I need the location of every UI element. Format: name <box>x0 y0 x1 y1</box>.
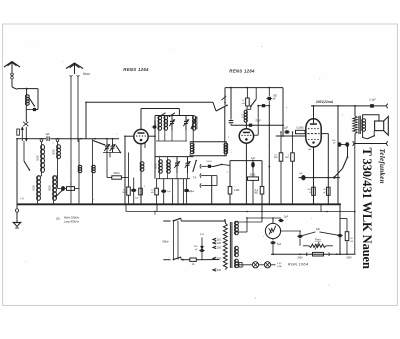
heater junctions <box>154 211 355 213</box>
wire plate V2 right <box>282 88 284 136</box>
label RENS 1264 first <box>123 67 149 72</box>
coil L11 core <box>192 116 196 131</box>
wire screen rail <box>327 134 329 205</box>
wire rect to line <box>272 245 274 254</box>
capacitor C13b 70pF <box>248 119 262 126</box>
label 100V <box>316 100 334 104</box>
label Telefunken <box>378 149 386 184</box>
svg-text:MΩ: MΩ <box>285 157 289 159</box>
wire det row <box>230 160 262 162</box>
coil L10 <box>164 116 169 131</box>
wire C12 down <box>268 101 270 106</box>
coil L5 row2 <box>48 176 57 205</box>
cathode rail V2 <box>245 143 247 204</box>
svg-text:4,5V: 4,5V <box>277 263 282 265</box>
trimmer C6 gang <box>110 139 116 153</box>
resistor R12 500 <box>307 187 315 195</box>
wire speaker rail <box>354 105 356 116</box>
fuse F1 <box>190 258 219 266</box>
svg-text:L.A: L.A <box>200 232 204 236</box>
coil hook b <box>56 139 59 142</box>
capacitor C12 500pF top <box>266 88 277 101</box>
jack J1 <box>387 104 388 109</box>
wire row1 legs <box>159 130 186 141</box>
transformer IF1 bottom <box>190 154 227 156</box>
svg-text:0,3: 0,3 <box>242 114 245 118</box>
wire leg a <box>172 179 174 205</box>
transformer T2 secondary HT <box>235 221 239 235</box>
transformer T2 primary <box>223 223 227 270</box>
svg-text:T 330/431 WLK Nauen: T 330/431 WLK Nauen <box>360 148 374 269</box>
capacitor C24 5uF <box>270 241 282 246</box>
heater lead V1 <box>144 143 146 149</box>
capacitor C14 grid <box>229 121 234 126</box>
wire lead1 to primary <box>181 218 225 221</box>
wire speaker bottom <box>363 131 368 139</box>
ground symbol <box>13 223 22 229</box>
wire HT down <box>235 218 247 232</box>
svg-text:240V: 240V <box>297 257 303 259</box>
wire row2 bottom <box>156 178 190 180</box>
switch S6 <box>116 146 121 154</box>
coil L3 3000 <box>52 142 60 159</box>
wire grid side <box>148 116 155 179</box>
label Kurz <box>83 72 90 76</box>
wire lamp link <box>259 264 265 266</box>
mains lead 2 <box>163 259 170 261</box>
svg-text:1μF: 1μF <box>284 126 289 129</box>
variometer arrow down <box>25 127 27 141</box>
transformer IF1 left coil <box>190 130 194 154</box>
coil L8 cathode <box>140 162 144 171</box>
capacitor C27 block <box>306 252 329 256</box>
coil L2 1000 <box>36 142 44 173</box>
svg-text:Telefunken: Telefunken <box>378 149 386 184</box>
capacitor C22 mains antenna <box>194 238 205 260</box>
svg-text:kΩ: kΩ <box>242 103 245 105</box>
svg-text:I·A: I·A <box>20 197 24 201</box>
label 1uF small <box>308 149 312 151</box>
trimmer C10 <box>174 157 180 179</box>
antenna A1 symbol <box>4 62 20 73</box>
grid cap wire V2 <box>230 88 232 120</box>
wire fern taps <box>300 231 334 249</box>
jack TA top <box>200 164 207 168</box>
B+ rail right <box>337 105 339 204</box>
svg-text:100V,22mA: 100V,22mA <box>316 100 334 104</box>
svg-text:2 MΩ: 2 MΩ <box>234 190 240 192</box>
svg-text:MΩ: MΩ <box>123 192 127 194</box>
capacitor C2 1uF series <box>45 133 50 141</box>
ground terminal <box>15 204 18 222</box>
wire IF1 drop <box>226 142 228 156</box>
wire grid line <box>17 138 119 140</box>
label T330/431 WLK Nauen <box>360 148 374 269</box>
svg-text:▸,5μF: ▸,5μF <box>189 190 195 193</box>
wire speaker top <box>363 115 379 121</box>
heater drop V1 <box>154 212 156 216</box>
trimmer C11 <box>185 157 191 179</box>
resistor R9 0.2M <box>296 126 306 133</box>
tap 150 <box>213 246 222 249</box>
wire lamp out <box>271 264 276 266</box>
wire antenna node row <box>17 88 38 90</box>
capacitor C13 bypass <box>261 104 267 107</box>
tube V1 RENS1264 <box>134 129 148 143</box>
capacitor C28 TA <box>207 165 213 168</box>
transformer T2 secondary heater <box>235 246 239 257</box>
coil hook a <box>40 139 43 142</box>
svg-text:5μF: 5μF <box>277 243 282 246</box>
B+ rail bottom <box>339 203 341 254</box>
svg-text:3000: 3000 <box>169 163 172 169</box>
wire bottom row <box>271 253 356 255</box>
capacitor C17 5uF <box>299 173 306 180</box>
coil L12 <box>155 157 163 179</box>
choke field coil <box>353 116 357 134</box>
label lamp rating <box>277 263 282 268</box>
label 240V <box>297 257 352 259</box>
switch S16 contacts <box>159 113 175 117</box>
coil L15 <box>242 106 248 122</box>
transformer T2 secondary lamp <box>235 259 239 267</box>
wire AF grid row <box>276 135 306 137</box>
resistor R7 30k <box>248 174 259 205</box>
resistor R5 1k <box>241 88 249 106</box>
label I-A <box>20 197 24 201</box>
label L.A. <box>200 232 204 236</box>
svg-text:4μF: 4μF <box>316 228 321 231</box>
wire grid V3 <box>305 134 307 136</box>
heater stub V1 <box>156 204 158 211</box>
grid leak rail <box>124 136 126 204</box>
svg-text:220: 220 <box>217 258 222 261</box>
switch S1 antenna <box>29 98 35 107</box>
svg-text:kΩ: kΩ <box>350 241 353 243</box>
svg-text:3000: 3000 <box>48 185 51 191</box>
lamp P2 <box>264 262 270 268</box>
svg-text:MΩ: MΩ <box>254 193 258 195</box>
heater stub V3 <box>320 204 322 211</box>
wire right branch <box>37 89 39 110</box>
capacitor C30 <box>161 179 171 205</box>
label RENS 1264 second <box>229 68 255 73</box>
wire rect top <box>272 217 274 223</box>
wire choke down <box>354 134 356 144</box>
tap 125 <box>213 242 222 245</box>
wire plate RES964 <box>313 106 315 119</box>
wire drop to coil <box>26 89 28 95</box>
resistor R6 <box>228 187 239 205</box>
resistor R11 1M <box>285 131 294 204</box>
wire HT to heater line <box>235 212 262 223</box>
capacitor C1 antenna series <box>26 108 38 111</box>
svg-text:5μF: 5μF <box>299 173 303 175</box>
wire row2 top <box>155 156 194 158</box>
capacitor C29 blob <box>152 126 157 129</box>
wire grid tube1 <box>125 135 134 137</box>
svg-text:MΩ: MΩ <box>274 157 278 159</box>
svg-text:150: 150 <box>217 247 222 250</box>
terminal block <box>17 129 20 135</box>
coil L4 row2 <box>32 176 41 205</box>
feeder hook right <box>77 75 80 142</box>
svg-text:3000: 3000 <box>52 149 55 155</box>
tube V3 output <box>306 119 321 147</box>
wire top bus <box>86 102 216 111</box>
transformer T1 core <box>359 116 360 134</box>
svg-text:1A: 1A <box>192 263 195 266</box>
wire heater corner <box>340 219 347 232</box>
svg-text:Mittel 200kHz: Mittel 200kHz <box>64 217 80 220</box>
svg-text:125: 125 <box>217 242 222 245</box>
tap 220 <box>213 257 222 260</box>
svg-text:RGN 1064: RGN 1064 <box>288 261 309 266</box>
switch S9 <box>247 88 256 110</box>
resistor R1 50k <box>107 153 129 180</box>
wire bypass row <box>257 105 270 107</box>
resistor R13 50k <box>345 232 353 255</box>
switch S7 <box>191 117 197 129</box>
capacitor C26 4uF <box>297 228 343 238</box>
tap 240 <box>213 269 222 272</box>
svg-text:3000: 3000 <box>166 120 169 126</box>
wire grid row V2 <box>231 124 283 126</box>
coil L13 <box>167 157 172 179</box>
capacitor C31 <box>184 179 193 205</box>
svg-text:70pF: 70pF <box>255 119 261 122</box>
antenna A2 symbol <box>66 63 83 74</box>
trimmer C8 <box>169 116 175 131</box>
switch S14 TA <box>212 164 230 167</box>
capacitor C7 <box>131 178 139 205</box>
variometer arrow up <box>21 127 23 141</box>
potentiometer P3 <box>303 242 333 250</box>
svg-text:T.A: T.A <box>193 175 197 179</box>
wire rect bottom <box>272 239 274 241</box>
switch S11 tone <box>333 145 348 179</box>
svg-text:0,3A: 0,3A <box>277 265 282 268</box>
switch S5 kurz <box>78 141 105 147</box>
wire V3 bottom leads <box>314 134 329 205</box>
transformer IF1 top <box>190 142 227 144</box>
svg-text:1000: 1000 <box>32 185 35 191</box>
coil L6 <box>78 139 82 205</box>
wire speaker rail lower <box>354 143 356 254</box>
svg-text:1000: 1000 <box>154 120 157 126</box>
wire det rail b <box>261 161 263 187</box>
wire cathode row <box>299 177 341 179</box>
tube V4 RGN1064 <box>265 223 280 238</box>
svg-text:1μF: 1μF <box>45 133 50 136</box>
wire top row detector <box>225 87 283 89</box>
label T.A. <box>193 175 197 179</box>
svg-text:5μF: 5μF <box>284 216 289 219</box>
svg-text:1μF: 1μF <box>251 157 256 160</box>
capacitor C21 500pF <box>332 140 349 147</box>
resistor R14 box <box>65 184 79 190</box>
capacitor C19 20uF <box>323 187 330 195</box>
ground bus <box>17 203 340 205</box>
wire link top <box>224 88 226 106</box>
svg-text:240V: 240V <box>346 258 352 260</box>
wire TA drop <box>212 176 217 205</box>
switch S15 <box>55 190 63 198</box>
trimmer C9 <box>183 116 189 131</box>
switch S13 mains b <box>173 257 181 260</box>
switch S10 speaker <box>368 131 376 139</box>
svg-text:1000: 1000 <box>36 155 39 161</box>
svg-text:0,2MΩ: 0,2MΩ <box>296 126 303 129</box>
coil L9 <box>154 116 162 131</box>
wire lead2 right <box>181 257 190 261</box>
svg-text:50Hz: 50Hz <box>162 239 169 243</box>
jack J2 <box>387 141 388 146</box>
wire antenna A1 down <box>12 79 17 89</box>
wire leg c <box>182 179 184 205</box>
heater line <box>126 204 355 211</box>
capacitor C25 <box>239 263 245 269</box>
label Fern <box>315 238 322 242</box>
wire gang bottom <box>103 153 121 158</box>
label tuning note <box>55 217 80 224</box>
switch S3 wave <box>24 141 30 171</box>
wire lamp feed <box>235 264 252 266</box>
svg-text:Fern: Fern <box>315 238 322 242</box>
switch S17 tick <box>222 96 227 100</box>
heater line 2 <box>247 217 281 219</box>
svg-text:Kurz: Kurz <box>83 72 90 76</box>
antenna coupling coil L1 <box>25 95 29 105</box>
label 0.1uF <box>206 161 212 163</box>
crossing X node <box>23 122 28 126</box>
wire det rail a <box>229 161 231 187</box>
capacitor C23 5uF <box>278 216 289 222</box>
switch S8 <box>193 160 197 172</box>
cathode rail V1 <box>140 144 142 205</box>
wire osc box top <box>141 109 179 116</box>
wire antenna cluster down <box>25 105 27 122</box>
coil L7 <box>92 139 96 205</box>
wire leg b <box>177 179 179 205</box>
trimmer C5 gang <box>104 139 110 153</box>
svg-text:RENS 1264: RENS 1264 <box>229 68 255 73</box>
wire L3 down <box>57 159 59 189</box>
resistor R2 0.1M <box>123 153 131 205</box>
wire row1 top <box>155 115 194 117</box>
svg-text:kΩ: kΩ <box>151 192 154 194</box>
wire plate V2 up <box>245 122 247 129</box>
transformer T2 core <box>230 222 232 268</box>
capacitor C3 blob <box>58 186 66 191</box>
mains lead 1 <box>163 220 170 222</box>
svg-text:240: 240 <box>217 269 222 272</box>
resistor R3 <box>139 186 146 195</box>
svg-text:2Dr.: 2Dr. <box>55 217 61 220</box>
resistor R4 <box>151 179 158 205</box>
switch linkage <box>174 221 179 260</box>
wire osc to detector <box>224 107 226 142</box>
resistor R8 <box>254 187 263 212</box>
wire L2 down <box>41 172 43 176</box>
wire plate V1 <box>140 109 142 130</box>
lamp P1 <box>252 262 258 268</box>
transformer IF1 right coil <box>224 142 228 154</box>
resistor R10 0.1M <box>274 131 283 204</box>
jack TA a <box>200 174 217 178</box>
wire feeder A down <box>70 142 72 204</box>
svg-text:50kΩ: 50kΩ <box>114 172 120 175</box>
tube V2 RENS1264 <box>239 129 253 143</box>
svg-text:0,1μF: 0,1μF <box>206 161 212 163</box>
capacitor C16 1uF <box>284 126 290 133</box>
speaker LS1 <box>375 116 389 135</box>
switch S2 band <box>216 105 228 112</box>
svg-text:1000: 1000 <box>155 163 158 169</box>
wire top bus corner <box>85 102 87 139</box>
spark gap on antenna lead <box>11 73 14 79</box>
wire plate branch <box>254 106 259 136</box>
label RGN 1064 <box>288 261 309 266</box>
label 0.5uF <box>189 190 195 193</box>
transformer T1 secondary <box>362 119 366 131</box>
svg-text:Lang 500kHz: Lang 500kHz <box>64 220 79 223</box>
switch S12 mains a <box>173 218 181 222</box>
left rail <box>16 138 18 204</box>
svg-text:30kΩ: 30kΩ <box>250 174 256 177</box>
wire primary top <box>224 221 226 223</box>
capacitor C20 0.1uF <box>369 99 376 108</box>
wire rect right <box>281 230 301 232</box>
label 50Hz <box>162 239 169 243</box>
wire phone line <box>353 141 387 145</box>
scan specks <box>25 46 343 299</box>
capacitor C15 1uF <box>251 157 256 177</box>
feeder hook left <box>70 75 73 142</box>
svg-text:RENS 1264: RENS 1264 <box>123 67 149 72</box>
tap 110 <box>213 238 221 241</box>
volume rail <box>268 106 270 205</box>
wire B+ line <box>311 105 386 107</box>
jack TA b <box>200 183 217 187</box>
svg-text:0,1μF: 0,1μF <box>369 99 376 102</box>
wire row1 bottom <box>156 140 187 142</box>
